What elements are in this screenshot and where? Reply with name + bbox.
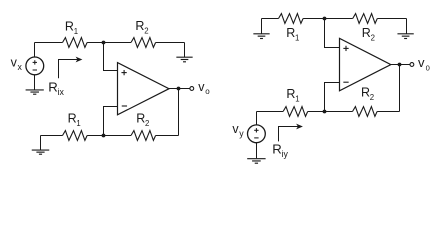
svg-text:0: 0 <box>426 64 430 73</box>
svg-text:1: 1 <box>76 119 80 128</box>
svg-text:R: R <box>286 87 295 101</box>
svg-text:1: 1 <box>74 27 78 36</box>
svg-text:o: o <box>205 87 210 96</box>
svg-text:x: x <box>18 62 23 72</box>
svg-text:1: 1 <box>295 94 299 103</box>
svg-text:v: v <box>418 55 425 70</box>
svg-text:R: R <box>272 142 282 157</box>
svg-text:R: R <box>286 26 295 40</box>
svg-text:R: R <box>136 111 145 125</box>
svg-text:1: 1 <box>295 34 299 43</box>
svg-text:R: R <box>48 80 58 95</box>
svg-text:R: R <box>68 111 77 125</box>
svg-text:2: 2 <box>144 27 148 36</box>
svg-text:y: y <box>239 128 244 138</box>
svg-text:R: R <box>362 26 371 40</box>
svg-text:R: R <box>361 85 370 99</box>
svg-text:R: R <box>135 19 144 33</box>
svg-text:iy: iy <box>282 149 289 159</box>
svg-text:2: 2 <box>371 34 375 43</box>
svg-text:2: 2 <box>145 119 149 128</box>
svg-text:R: R <box>65 19 74 33</box>
svg-text:2: 2 <box>370 93 374 102</box>
svg-text:ix: ix <box>58 87 65 97</box>
